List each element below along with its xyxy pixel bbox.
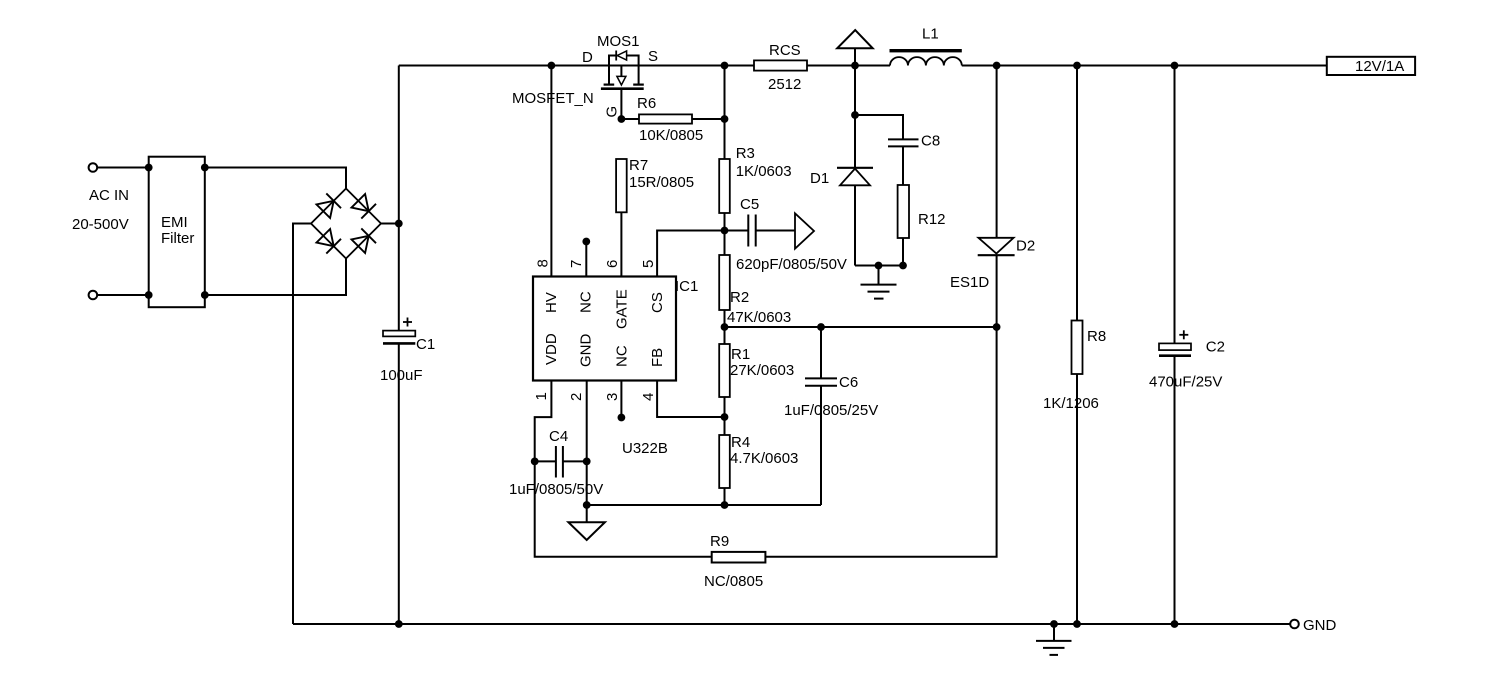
inductor L1	[890, 26, 962, 66]
pin 7 NC stub	[582, 238, 590, 277]
junction C6 top	[817, 323, 825, 331]
label D2	[1016, 238, 1035, 255]
junction C4 right	[583, 458, 591, 466]
svg-text:1uF/0805/50V: 1uF/0805/50V	[509, 481, 603, 498]
svg-text:2: 2	[568, 393, 585, 401]
wire bottom rail	[293, 623, 1290, 625]
svg-text:2512: 2512	[768, 76, 801, 93]
junction R4 bottom	[721, 501, 729, 509]
svg-text:RCS: RCS	[769, 42, 801, 59]
wire to C8	[855, 115, 903, 139]
svg-text:FB: FB	[649, 348, 666, 367]
svg-text:20-500V: 20-500V	[72, 216, 129, 233]
label G	[604, 106, 621, 118]
svg-text:1: 1	[533, 392, 550, 400]
capacitor C4	[509, 428, 603, 498]
svg-text:NC: NC	[613, 345, 630, 367]
resistor R4	[719, 434, 798, 505]
resistor R3	[719, 145, 791, 255]
svg-text:100uF: 100uF	[380, 367, 423, 384]
svg-text:1K/1206: 1K/1206	[1043, 395, 1099, 412]
svg-text:GND: GND	[578, 334, 595, 368]
junction R6 right	[721, 115, 729, 123]
resistor R2	[719, 255, 791, 344]
svg-text:R6: R6	[637, 95, 656, 112]
power flag	[837, 30, 873, 65]
svg-text:3: 3	[604, 393, 621, 401]
svg-text:NC/0805: NC/0805	[704, 573, 763, 590]
label ES1D	[950, 274, 989, 291]
svg-text:15R/0805: 15R/0805	[629, 174, 694, 191]
junction power flag	[851, 62, 859, 70]
wire pin1 to R9	[535, 461, 712, 556]
junction C2 rail	[1171, 62, 1179, 70]
ground IC	[568, 505, 605, 540]
junction R2-R1	[721, 323, 729, 331]
wire pin5 CS	[657, 231, 724, 277]
svg-text:CS: CS	[649, 292, 666, 313]
node G junction	[618, 115, 626, 123]
svg-text:C2: C2	[1206, 339, 1225, 356]
label 20-500V	[72, 216, 129, 233]
svg-text:1K/0603: 1K/0603	[736, 163, 792, 180]
svg-text:R7: R7	[629, 157, 648, 174]
wire riser left	[398, 66, 400, 625]
svg-text:47K/0603: 47K/0603	[727, 309, 791, 326]
svg-text:7: 7	[568, 260, 585, 268]
junction FB node	[721, 413, 729, 421]
wire bridge plus	[381, 223, 399, 225]
svg-text:GND: GND	[1303, 617, 1337, 634]
junction R8 bottom	[1073, 620, 1081, 628]
wire snubber bottom	[855, 262, 907, 270]
svg-text:6: 6	[604, 260, 621, 268]
wire node FB2 horizontal	[725, 326, 997, 328]
svg-text:IC1: IC1	[675, 278, 698, 295]
svg-text:D: D	[582, 49, 593, 66]
terminal GND	[1290, 617, 1336, 634]
svg-text:C6: C6	[839, 374, 858, 391]
wire pin1 VDD	[535, 381, 552, 462]
svg-text:ES1D: ES1D	[950, 274, 989, 291]
svg-text:8: 8	[535, 259, 552, 267]
wire snubber top	[854, 66, 856, 116]
svg-text:EMI: EMI	[161, 214, 188, 231]
ground snubber	[861, 266, 897, 299]
junction bridge plus	[395, 220, 403, 228]
capacitor C6	[784, 327, 878, 505]
svg-text:U322B: U322B	[622, 440, 668, 457]
capacitor C8	[888, 133, 940, 186]
svg-text:4.7K/0603: 4.7K/0603	[730, 450, 798, 467]
diode D2 ES1D	[978, 66, 1015, 256]
wire top rail	[399, 65, 1327, 67]
svg-text:5: 5	[640, 260, 657, 268]
junction HV riser	[548, 62, 556, 70]
svg-text:4: 4	[640, 393, 657, 401]
resistor R9	[704, 533, 765, 590]
svg-text:12V/1A: 12V/1A	[1355, 58, 1404, 75]
junction D2 column	[993, 323, 1001, 331]
svg-text:C1: C1	[416, 336, 435, 353]
svg-text:MOSFET_N: MOSFET_N	[512, 90, 594, 107]
label U322B	[622, 440, 668, 457]
svg-text:27K/0603: 27K/0603	[730, 362, 794, 379]
label D1	[810, 170, 829, 187]
svg-text:R1: R1	[731, 346, 750, 363]
label IC1	[675, 278, 698, 295]
wire EMI to bridge bottom	[205, 259, 346, 296]
label AC IN	[89, 187, 129, 204]
svg-text:C4: C4	[549, 428, 568, 445]
junction rail CS column	[721, 62, 729, 70]
wire R9 to D2 column	[765, 327, 996, 557]
EMI filter block	[149, 157, 205, 308]
junction EMI pins	[145, 164, 209, 299]
wire CS column top	[724, 66, 726, 160]
svg-text:L1: L1	[922, 26, 939, 43]
svg-text:C8: C8	[921, 133, 940, 150]
svg-text:1uF/0805/25V: 1uF/0805/25V	[784, 402, 878, 419]
junction R8 rail	[1073, 62, 1081, 70]
terminal AC input line1	[89, 163, 149, 172]
label S	[648, 48, 658, 65]
capacitor C1	[380, 318, 435, 385]
resistor R1	[719, 344, 794, 435]
resistor R8	[1043, 66, 1106, 625]
svg-text:G: G	[604, 106, 621, 118]
resistor R7	[616, 157, 694, 277]
resistor R6	[621, 95, 724, 144]
wire HV riser	[550, 66, 552, 277]
svg-text:R4: R4	[731, 434, 750, 451]
wire gnd bus	[587, 504, 821, 506]
terminal AC input line2	[89, 291, 149, 300]
svg-text:VDD: VDD	[543, 333, 560, 365]
transistor MOS1 MOSFET_N	[601, 51, 644, 120]
capacitor C2	[1149, 66, 1225, 625]
junction C5 node	[721, 227, 729, 235]
junction C1 bottom rail	[395, 620, 403, 628]
junction main ground	[1050, 620, 1058, 628]
junction gnd node	[583, 501, 591, 509]
svg-text:620pF/0805/50V: 620pF/0805/50V	[736, 256, 847, 273]
wire EMI to bridge top	[205, 168, 346, 189]
svg-text:D1: D1	[810, 170, 829, 187]
svg-text:R8: R8	[1087, 328, 1106, 345]
svg-text:R3: R3	[736, 145, 755, 162]
svg-text:R2: R2	[730, 289, 749, 306]
pin 3 NC stub	[618, 381, 626, 422]
output port 12V/1A	[1327, 57, 1415, 75]
junction D2 rail	[993, 62, 1001, 70]
junction snubber	[851, 111, 859, 119]
svg-text:R9: R9	[710, 533, 729, 550]
label D	[582, 49, 593, 66]
svg-text:Filter: Filter	[161, 230, 194, 247]
svg-text:GATE: GATE	[613, 289, 630, 329]
svg-text:C5: C5	[740, 196, 759, 213]
op-amp U1 U322B body	[533, 277, 676, 381]
resistor RCS	[754, 42, 807, 93]
wire D2 anode	[996, 255, 998, 327]
svg-text:NC: NC	[578, 291, 595, 313]
junction C2 bottom	[1171, 620, 1179, 628]
labels IC pin names	[543, 289, 666, 367]
ground main	[1036, 624, 1072, 655]
capacitor C5	[725, 196, 847, 273]
labels IC pin numbers	[533, 259, 657, 401]
svg-text:S: S	[648, 48, 658, 65]
svg-text:AC IN: AC IN	[89, 187, 129, 204]
svg-text:D2: D2	[1016, 238, 1035, 255]
wire pin4 FB	[657, 381, 724, 418]
svg-text:R12: R12	[918, 211, 946, 228]
bridge rectifier diodes	[311, 189, 381, 259]
diode D1	[837, 115, 873, 266]
svg-text:HV: HV	[543, 292, 560, 313]
label MOSFET_N	[512, 90, 594, 107]
svg-text:470uF/25V: 470uF/25V	[1149, 374, 1222, 391]
wire bridge minus to bottom rail	[293, 224, 311, 625]
resistor R12	[898, 185, 946, 266]
junction C4 left	[531, 458, 539, 466]
connector arrow C5	[795, 213, 814, 248]
label MOS1	[597, 33, 640, 50]
wire pin2 GND	[586, 381, 588, 506]
svg-text:MOS1: MOS1	[597, 33, 640, 50]
svg-text:10K/0805: 10K/0805	[639, 127, 703, 144]
